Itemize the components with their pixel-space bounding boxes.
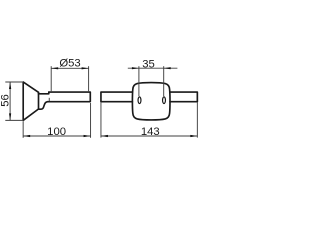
wall cone right edge — [38, 92, 40, 109]
svg-text:100: 100 — [47, 126, 66, 138]
bar left segment — [101, 92, 132, 102]
arrow 143 right — [190, 135, 197, 137]
dim Ø53 extension lines — [50, 66, 52, 91]
svg-text:Ø53: Ø53 — [59, 57, 80, 69]
dim 143 extension lines — [100, 103, 102, 138]
bar end sliver edge — [48, 98, 50, 101]
bar right segment — [170, 92, 197, 102]
svg-text:56: 56 — [0, 94, 11, 107]
dim 56 line — [9, 82, 11, 120]
screw slot left — [138, 97, 141, 104]
dim Ø53 line — [51, 67, 88, 69]
dim 35 extension lines — [138, 66, 140, 96]
wall cone top slant — [23, 82, 38, 92]
screw slot right — [163, 97, 166, 104]
svg-text:35: 35 — [142, 58, 155, 70]
dim 100 extension lines — [22, 121, 24, 138]
dim 35 line — [128, 67, 178, 69]
neck bottom S-curve — [39, 102, 48, 110]
arrow 56 up — [9, 82, 11, 89]
wall cone bottom slant — [23, 109, 38, 120]
dim 56 extension lines — [5, 81, 23, 83]
arrow O53 left — [51, 67, 58, 69]
arrow 100 left — [23, 135, 30, 137]
arrow 143 left — [101, 135, 108, 137]
dim 143 line — [101, 135, 197, 137]
arrow 100 right — [84, 135, 91, 137]
arrow 35 left (outside, pointing right) — [132, 67, 139, 69]
dim 100 line — [23, 135, 90, 137]
bar outline — [48, 92, 91, 102]
neck top and step — [39, 92, 49, 94]
wall cone left edge — [22, 82, 24, 120]
arrow O53 right — [82, 67, 89, 69]
arrow 35 right (outside, pointing left) — [164, 67, 171, 69]
svg-text:143: 143 — [141, 126, 160, 138]
arrow 56 down — [9, 113, 11, 120]
wall plate (squircle) — [132, 83, 170, 120]
